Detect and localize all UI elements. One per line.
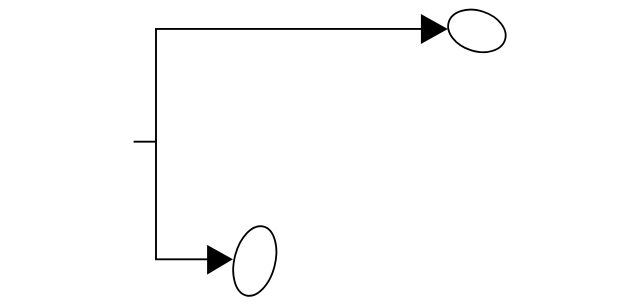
arrowhead: top arrow (421, 14, 448, 44)
node: top ellipse (443, 3, 512, 60)
wire: left stub tick (134, 141, 157, 143)
node: bottom ellipse (226, 222, 283, 301)
arrowhead: bottom arrow (207, 245, 233, 275)
wire: top horizontal branch (155, 28, 421, 30)
wire: bottom horizontal branch (155, 258, 208, 260)
wire: vertical trunk (155, 29, 157, 259)
